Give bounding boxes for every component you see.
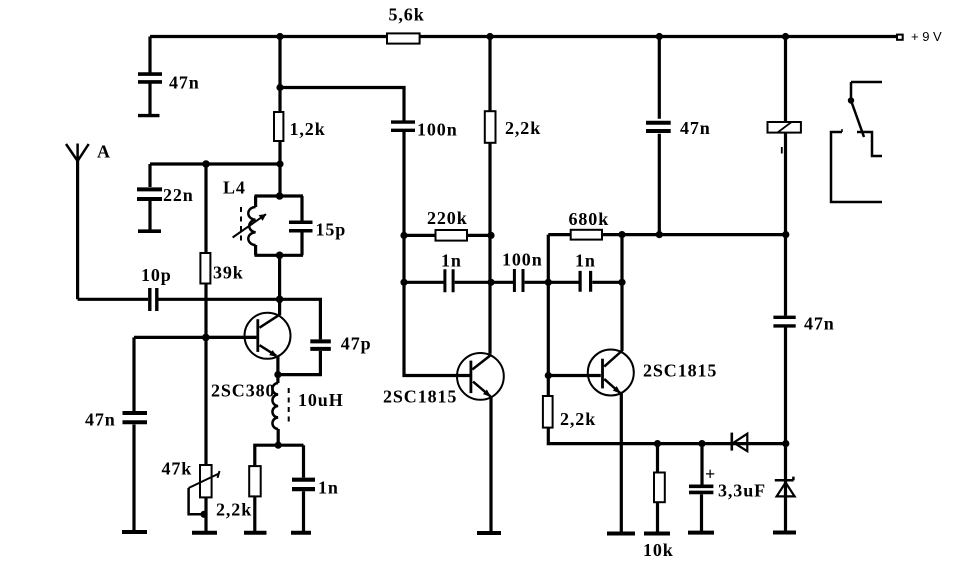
svg-text:1,2k: 1,2k bbox=[290, 119, 326, 139]
svg-text:1n: 1n bbox=[441, 251, 462, 271]
svg-text:10uH: 10uH bbox=[298, 390, 344, 410]
svg-text:15p: 15p bbox=[316, 220, 347, 240]
svg-text:220k: 220k bbox=[427, 208, 468, 228]
svg-text:A: A bbox=[97, 142, 111, 162]
svg-text:+: + bbox=[705, 464, 716, 484]
svg-text:2SC380: 2SC380 bbox=[211, 381, 275, 401]
svg-text:47n: 47n bbox=[804, 314, 835, 334]
svg-text:1n: 1n bbox=[318, 478, 339, 498]
svg-text:680k: 680k bbox=[569, 209, 610, 229]
svg-text:47n: 47n bbox=[85, 410, 116, 430]
svg-text:47n: 47n bbox=[169, 73, 200, 93]
svg-text:5,6k: 5,6k bbox=[389, 5, 425, 25]
svg-text:2SC1815: 2SC1815 bbox=[643, 361, 717, 381]
svg-text:10p: 10p bbox=[141, 265, 172, 285]
svg-text:2,2k: 2,2k bbox=[216, 500, 252, 520]
svg-text:100n: 100n bbox=[417, 120, 458, 140]
svg-text:39k: 39k bbox=[213, 263, 244, 283]
svg-text:2,2k: 2,2k bbox=[560, 409, 596, 429]
svg-text:10k: 10k bbox=[643, 540, 674, 560]
svg-text:3,3uF: 3,3uF bbox=[718, 481, 766, 501]
svg-text:47n: 47n bbox=[680, 118, 711, 138]
svg-text:2SC1815: 2SC1815 bbox=[383, 387, 457, 407]
svg-text:1n: 1n bbox=[575, 251, 596, 271]
svg-text:L4: L4 bbox=[223, 178, 246, 198]
svg-text:2,2k: 2,2k bbox=[505, 118, 541, 138]
svg-text:22n: 22n bbox=[163, 185, 194, 205]
svg-text:100n: 100n bbox=[502, 250, 543, 270]
svg-text:+ 9 V: + 9 V bbox=[911, 29, 942, 44]
svg-text:47p: 47p bbox=[341, 334, 372, 354]
svg-text:47k: 47k bbox=[162, 459, 193, 479]
